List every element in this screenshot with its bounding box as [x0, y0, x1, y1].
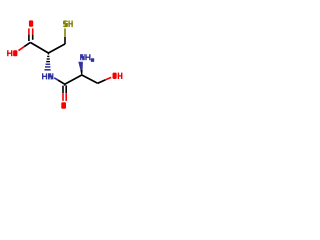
double bond C1=O top, left line red part [28, 28, 30, 34]
solid wedge C5-N2 blue wide part [78, 62, 83, 70]
label SH : letter H olive [68, 21, 72, 28]
hashed wedge dash2 [47, 58, 50, 59]
double bond C4=O bottom, right line black part [65, 85, 67, 93]
label HN : letter N blue [48, 73, 53, 79]
label OH : letter H red [118, 73, 123, 79]
double bond C4=O bottom, left line red part [62, 93, 64, 101]
hashed wedge dash3 [46, 61, 50, 62]
double bond C4=O bottom, right line red part [65, 93, 67, 101]
bond C3-S black half [64, 37, 66, 44]
label HN : letter H blue [42, 73, 47, 79]
hashed wedge dash4 blue [46, 64, 51, 66]
label O top (carboxyl) red solid [29, 20, 33, 26]
double bond C4=O bottom, left line black part [62, 86, 64, 94]
label SH : letter S olive [63, 21, 68, 28]
bond C1-C2 [30, 42, 48, 53]
bond C2-C3 [48, 44, 65, 53]
double bond C1=O top, left line black part [28, 35, 30, 41]
bond C3-S olive half [64, 28, 66, 36]
bond C4-C5 [65, 75, 82, 84]
bond N1-C4 black half [58, 80, 65, 84]
bond O(hydroxyl)-C1 black half [24, 42, 30, 46]
label NH2 : letter N blue [80, 54, 85, 60]
hashed wedge C2-N1 dash1 [47, 56, 49, 57]
label O bottom (amide) red solid [61, 102, 66, 109]
bond N1-C4 blue half [54, 78, 58, 80]
label NH2 : subscript 2 blue [91, 58, 94, 62]
double bond C1=O top, right line black part [32, 35, 34, 40]
C2 vertex stem [48, 53, 49, 55]
bond O(hydroxyl)-C1 red half [19, 47, 25, 51]
hashed wedge dash5 blue [45, 66, 50, 68]
hashed wedge dash6 blue [45, 69, 51, 71]
label OH : letter O red solid [113, 73, 117, 79]
C4 vertex stem [64, 84, 65, 86]
solid wedge C5-N2 black tip [80, 70, 82, 75]
bond C6-O(OH) red half [105, 77, 111, 80]
label HO : letter H red [7, 50, 12, 56]
double bond C1=O top, right line red part [32, 28, 34, 34]
label HO : letter O red solid [13, 50, 17, 56]
bond C5-C6 [82, 75, 98, 83]
label NH2 : letter H blue [85, 54, 90, 60]
bond C6-O(OH) black half [98, 80, 106, 83]
